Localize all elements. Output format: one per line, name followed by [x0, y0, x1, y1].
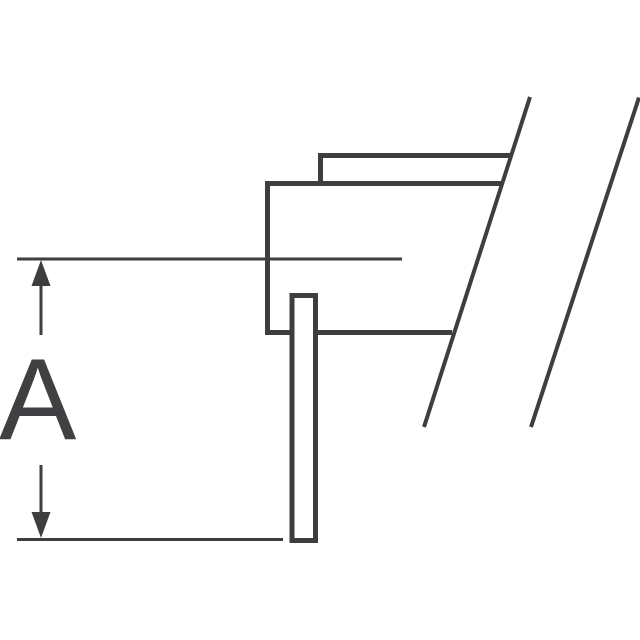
svg-text:A: A: [0, 335, 77, 465]
